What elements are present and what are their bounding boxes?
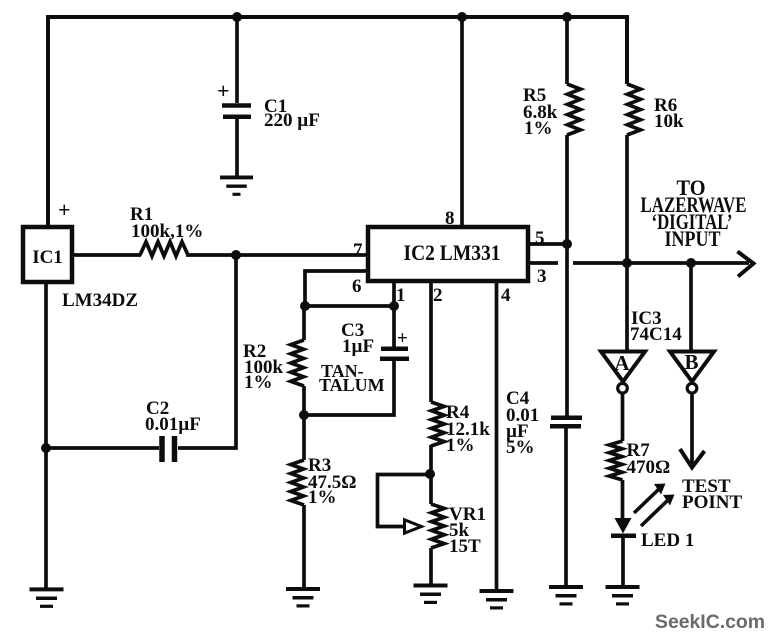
wire IC1 output to R1 [72, 253, 141, 257]
VR1 wiper arrowhead [405, 520, 422, 533]
svg-text:7: 7 [353, 240, 363, 261]
wire node to R3 [302, 415, 306, 460]
svg-text:SeekIC.com: SeekIC.com [655, 612, 765, 633]
node junction rail/pin8 [457, 12, 467, 22]
capacitor C1 [222, 103, 251, 108]
wire R3 to ground [302, 505, 306, 590]
resistor R1 [140, 242, 188, 256]
svg-text:+: + [58, 197, 71, 222]
svg-text:A: A [614, 351, 630, 375]
svg-text:LED 1: LED 1 [641, 530, 694, 551]
svg-text:0.01µF: 0.01µF [145, 414, 201, 435]
node junction pin6/R2 [300, 301, 310, 311]
svg-text:1%: 1% [308, 487, 337, 508]
inverter A input wire [625, 263, 629, 350]
resistor R2 [291, 340, 304, 386]
capacitor C2 [159, 436, 165, 462]
IC2 box [368, 227, 528, 281]
svg-text:1%: 1% [244, 372, 273, 393]
node junction pin1 [389, 301, 399, 311]
svg-text:B: B [684, 350, 698, 374]
svg-text:2: 2 [433, 285, 443, 306]
wire rail to R5 [565, 17, 569, 84]
node junction R2/R3/C3 [299, 410, 309, 420]
wire top supply rail [48, 17, 627, 228]
wire C1 riser [235, 17, 239, 103]
node junction pin5/R5 [562, 239, 572, 249]
wire A output to R7 [621, 393, 625, 441]
wire R6 to output line [625, 135, 629, 263]
svg-text:100k,1%: 100k,1% [131, 221, 203, 242]
svg-text:74C14: 74C14 [630, 324, 682, 345]
wire R2 to node [302, 386, 306, 415]
svg-text:INPUT: INPUT [665, 226, 721, 251]
node junction output/R6/inverter A [622, 258, 632, 268]
wire pin6 staircase [305, 271, 368, 306]
wire pin6 node to R2 [302, 306, 306, 340]
svg-text:6: 6 [352, 276, 362, 297]
capacitor C3 [381, 347, 408, 352]
ground for VR1 [414, 584, 448, 588]
svg-text:POINT: POINT [682, 492, 743, 513]
op-amp inverter A of IC3 [601, 352, 645, 382]
LED emission arrows [634, 489, 659, 513]
op-amp inverter B of IC3 [670, 352, 714, 382]
svg-text:8: 8 [445, 208, 455, 229]
resistor R5 [567, 84, 581, 135]
node junction R4/VR1/wiper [425, 469, 435, 479]
svg-text:470Ω: 470Ω [627, 457, 671, 478]
wire C1 to ground [235, 117, 239, 177]
LED LED1 [615, 518, 632, 534]
wire IC2 pin 3 stub [528, 261, 558, 265]
svg-text:1µF: 1µF [342, 336, 374, 357]
node junction rail/R5 [562, 12, 572, 22]
IC1 box [23, 227, 72, 282]
resistor R6 [627, 84, 641, 135]
wire IC2 pin 5 stub [528, 242, 567, 246]
svg-text:LM34DZ: LM34DZ [62, 290, 138, 311]
ground for IC1 leg [30, 587, 64, 591]
svg-text:4: 4 [501, 285, 511, 306]
wire pin 8 riser [460, 17, 464, 228]
inverter B input wire [689, 263, 693, 350]
svg-text:IC2 LM331: IC2 LM331 [404, 240, 501, 265]
wire LED to ground [621, 536, 625, 588]
wire R5 to pin5 node and C4 [565, 135, 569, 416]
wire C2 left to IC1 leg [46, 446, 159, 450]
svg-text:5: 5 [535, 228, 545, 249]
node junction rail/C1 [232, 12, 242, 22]
resistor R7 [609, 441, 622, 480]
wire VR1 to ground [429, 548, 433, 586]
ground for pin 4 [480, 589, 514, 593]
wire R7 to LED [621, 480, 625, 518]
svg-text:10k: 10k [654, 111, 684, 132]
wire C2 riser [178, 255, 236, 448]
resistor R3 [291, 460, 304, 505]
wire pin 2 down to R4 [429, 281, 433, 402]
test point arrowhead [680, 449, 705, 468]
svg-text:1%: 1% [524, 118, 553, 139]
svg-text:1: 1 [396, 285, 406, 306]
svg-text:+: + [397, 328, 408, 349]
svg-text:220 µF: 220 µF [264, 110, 320, 131]
wire output line (hops R5 line) [573, 261, 749, 265]
output arrowhead [738, 252, 754, 277]
ground for R3 [286, 587, 320, 591]
svg-text:5%: 5% [506, 437, 535, 458]
wire C3 bottom to R2 bottom node [304, 359, 394, 415]
wire C4 to ground [564, 427, 568, 588]
wire pin 4 to ground [495, 281, 499, 592]
svg-text:+: + [217, 78, 230, 103]
wire pin 1 down to C3 [392, 281, 396, 347]
resistor R4 [431, 402, 444, 446]
svg-text:1%: 1% [446, 435, 475, 456]
wire IC1 bottom to ground [44, 282, 48, 590]
trimmer VR1 [431, 504, 444, 548]
wire R4 to wiper node [429, 445, 433, 504]
svg-text:3: 3 [537, 266, 547, 287]
ground for LED [606, 585, 640, 589]
svg-text:15T: 15T [449, 536, 481, 557]
node junction IC1 leg / C2 [41, 443, 51, 453]
wire B output to test point [690, 393, 694, 464]
node junction R1/C2 riser [231, 250, 241, 260]
svg-text:IC1: IC1 [32, 247, 63, 268]
wire VR1 wiper loop [378, 475, 431, 527]
ground for C4 [549, 585, 583, 589]
wire R1 to IC2 pin 7 [186, 253, 368, 257]
node junction output/inverter B [686, 258, 696, 268]
ground for C1 [220, 175, 253, 179]
svg-text:TALUM: TALUM [319, 375, 385, 395]
capacitor C4 [551, 415, 582, 420]
